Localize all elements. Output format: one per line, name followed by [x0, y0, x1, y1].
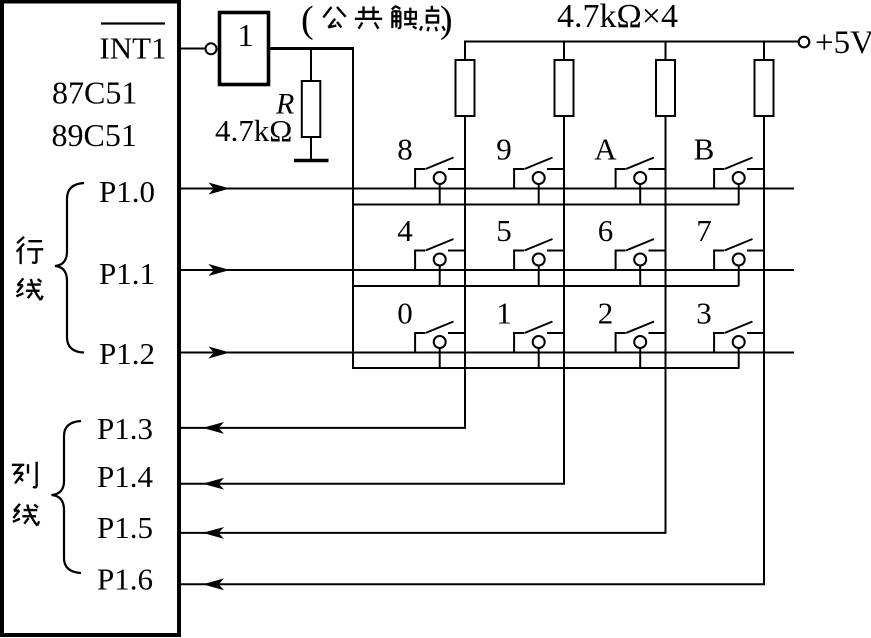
- switch S5 key "5": [514, 239, 564, 270]
- wire: column line to pin P1.6: [181, 583, 765, 585]
- wire: switch A pole to common line: [639, 184, 641, 205]
- arrow on column line P1.4: [205, 479, 223, 489]
- svg-text:P1.2: P1.2: [99, 336, 155, 371]
- svg-text:P1.3: P1.3: [97, 411, 153, 446]
- wire: switch 4 pole to common line: [439, 266, 441, 287]
- inverter gate U2 "1": [220, 13, 269, 85]
- switch S9 key "9": [514, 158, 564, 189]
- switch S1 key "1": [514, 322, 564, 353]
- svg-text:89C51: 89C51: [52, 117, 137, 153]
- resistor R3 (4.7k pull-up, column 3): [656, 60, 675, 116]
- arrow on row line P1.0: [210, 184, 228, 194]
- svg-text:2: 2: [598, 296, 614, 331]
- label 列线 (column lines): [12, 462, 39, 526]
- wire: common contact line row 1: [352, 204, 739, 206]
- svg-text:7: 7: [696, 213, 712, 248]
- wire: switch 3 pole to common line: [738, 348, 740, 369]
- svg-text:4.7kΩ×4: 4.7kΩ×4: [557, 0, 678, 35]
- wire: column line to pin P1.4: [181, 483, 565, 485]
- wire: switch 2 pole to common line: [639, 348, 641, 369]
- wire: common bus vertical: [352, 48, 354, 370]
- switch S8 key "8": [415, 158, 465, 189]
- wire: row line P1.0: [181, 188, 794, 190]
- wire: +5V supply rail: [465, 41, 799, 43]
- wire: inverter output to common bus: [270, 47, 354, 50]
- wire: column line to pin P1.3: [181, 427, 466, 429]
- wire: rail to resistor R4: [763, 41, 765, 61]
- svg-text:(: (: [301, 0, 314, 41]
- wire: row line P1.2: [181, 352, 794, 354]
- wire: row line P1.1: [181, 269, 794, 271]
- resistor R2 (4.7k pull-up, column 2): [555, 60, 574, 116]
- label (公共触点) common contact: [301, 0, 453, 41]
- svg-text:0: 0: [397, 296, 413, 331]
- wire: rail to resistor R3: [665, 41, 667, 61]
- arrow on column line P1.6: [205, 579, 223, 589]
- switch SB key "B": [714, 158, 764, 189]
- svg-text:9: 9: [496, 132, 512, 167]
- resistor R4 (4.7k pull-up, column 4): [755, 60, 774, 116]
- svg-text:P1.0: P1.0: [99, 174, 155, 209]
- wire: column line to pin P1.5: [181, 532, 667, 534]
- switch S3 key "3": [714, 322, 764, 353]
- wire: switch 8 pole to common line: [439, 184, 441, 205]
- svg-text:6: 6: [598, 213, 614, 248]
- svg-text:8: 8: [397, 132, 413, 167]
- wire: column line 1 vertical: [464, 116, 466, 428]
- svg-text:5: 5: [496, 213, 512, 248]
- svg-text:4.7kΩ: 4.7kΩ: [215, 113, 292, 148]
- resistor R: [302, 81, 321, 137]
- arrow on column line P1.5: [205, 528, 223, 538]
- switch S4 key "4": [415, 239, 465, 270]
- wire: INT1 pin to inverter input: [181, 48, 205, 50]
- wire: column line 3 vertical: [665, 116, 667, 533]
- svg-text:P1.6: P1.6: [97, 562, 153, 597]
- svg-text:1: 1: [238, 17, 254, 53]
- switch S6 key "6": [616, 239, 666, 270]
- +5V terminal circle: [799, 37, 810, 48]
- svg-text:1: 1: [496, 296, 512, 331]
- switch SA key "A": [616, 158, 666, 189]
- resistor R1 (4.7k pull-up, column 1): [456, 60, 475, 116]
- ground: [294, 159, 329, 163]
- svg-text:P1.5: P1.5: [97, 510, 153, 545]
- wire: resistor R bottom to ground: [310, 137, 312, 161]
- wire: rail to resistor R1: [464, 41, 466, 61]
- switch S7 key "7": [714, 239, 764, 270]
- arrow on column line P1.3: [205, 423, 223, 433]
- wire: switch 6 pole to common line: [639, 266, 641, 287]
- wire: common contact line row 2: [352, 285, 739, 287]
- inverter input bubble (inversion circle): [206, 43, 217, 54]
- MCU U1 87C51/89C51 box: [2, 2, 179, 636]
- svg-text:87C51: 87C51: [52, 75, 137, 111]
- wire: switch 0 pole to common line: [439, 348, 441, 369]
- wire: switch 9 pole to common line: [538, 184, 540, 205]
- svg-text:4: 4: [397, 213, 413, 248]
- wire: switch B pole to common line: [738, 184, 740, 205]
- svg-text:): ): [440, 0, 453, 41]
- switch S2 key "2": [616, 322, 666, 353]
- svg-text:A: A: [594, 132, 617, 167]
- svg-text:+5V: +5V: [815, 25, 871, 61]
- wire: switch 7 pole to common line: [738, 266, 740, 287]
- wire: switch 1 pole to common line: [538, 348, 540, 369]
- wire: common contact line row 3: [352, 367, 739, 369]
- svg-text:INT1: INT1: [99, 31, 166, 66]
- svg-text:3: 3: [696, 296, 712, 331]
- wire: switch 5 pole to common line: [538, 266, 540, 287]
- svg-text:B: B: [694, 132, 715, 167]
- switch S0 key "0": [415, 322, 465, 353]
- label 行线 (row lines): [16, 237, 43, 300]
- brace for column lines P1.3-P1.6: [52, 421, 82, 573]
- wire: column line 4 vertical: [763, 116, 765, 584]
- wire: rail to resistor R2: [563, 41, 565, 61]
- svg-text:P1.4: P1.4: [97, 459, 153, 494]
- pin label INT1 (active low): [99, 24, 166, 66]
- wire: node to resistor R top: [310, 49, 312, 82]
- brace for row lines P1.0-P1.2: [55, 183, 84, 353]
- wire: column line 2 vertical: [563, 116, 565, 484]
- arrow on row line P1.2: [210, 348, 228, 358]
- svg-text:P1.1: P1.1: [99, 256, 155, 291]
- arrow on row line P1.1: [210, 265, 228, 275]
